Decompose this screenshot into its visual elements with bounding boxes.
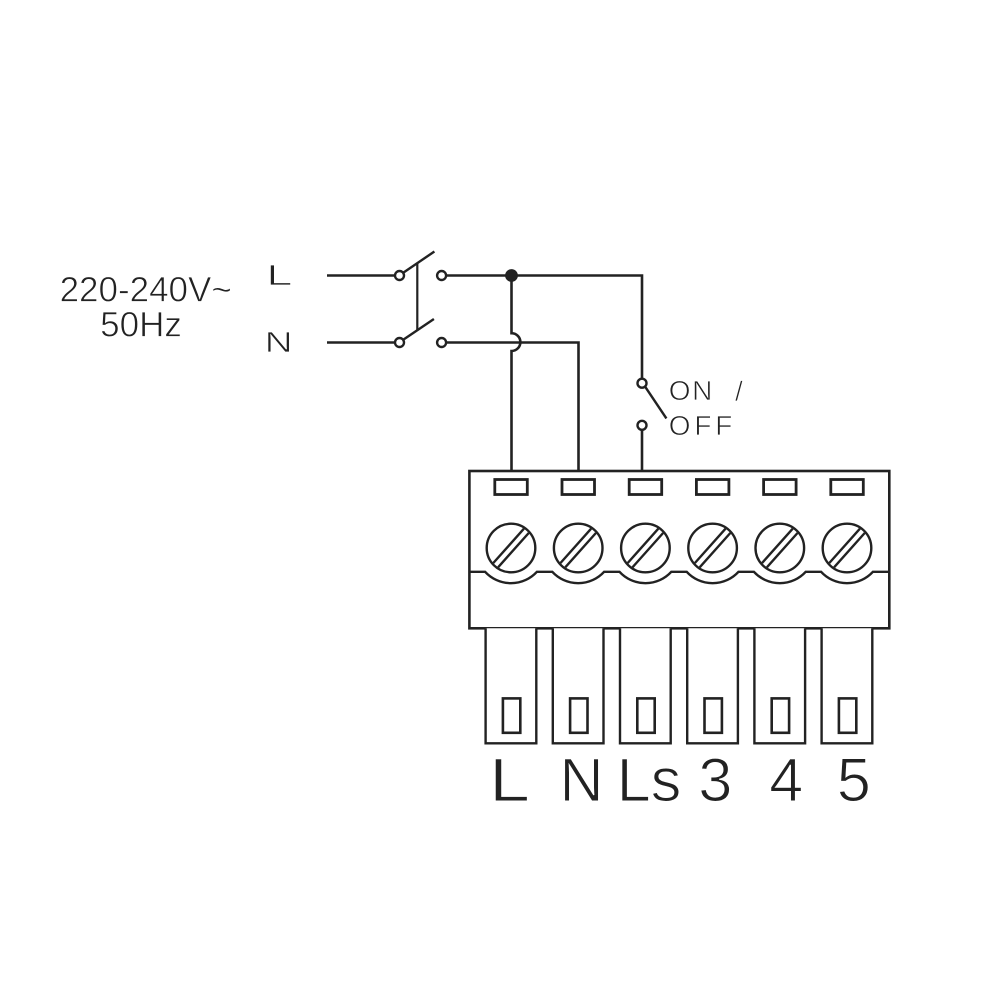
screw terminal 2 <box>554 524 603 573</box>
svg-text:ON: ON <box>669 375 714 406</box>
wire ON/OFF to terminal Ls <box>641 430 644 471</box>
wire L: switch to junction to ON/OFF drop <box>446 276 642 379</box>
screw terminal 1 <box>487 524 536 573</box>
svg-text:3: 3 <box>698 746 732 814</box>
svg-text:/: / <box>735 376 743 407</box>
connector tab 5 (4) <box>754 628 805 743</box>
screw terminal 5 <box>756 524 805 573</box>
terminal slot 5 <box>764 480 797 495</box>
label ON / OFF <box>669 375 743 441</box>
svg-text:Ls: Ls <box>617 746 681 814</box>
terminal slot 3 <box>629 480 662 495</box>
connector tab 1 (L) <box>486 628 537 743</box>
connector tab 3 (Ls) <box>620 628 671 743</box>
svg-text:L: L <box>266 260 292 292</box>
connector tab 2 (N) <box>553 628 604 743</box>
switch S1 pole a (L) <box>395 252 446 281</box>
connector tab 6 (5) <box>822 628 873 743</box>
value label 220-240V~ 50Hz <box>60 271 232 345</box>
switch S2 ON/OFF <box>638 379 667 430</box>
terminal block body <box>469 471 889 628</box>
screw terminal 6 <box>823 524 872 573</box>
wire N input <box>327 341 395 344</box>
svg-text:N: N <box>559 746 603 814</box>
svg-text:220-240V~: 220-240V~ <box>60 271 232 310</box>
scalloped clamp edge <box>469 572 889 583</box>
terminal slot 2 <box>562 480 595 495</box>
terminal slot 6 <box>831 480 864 495</box>
svg-text:L: L <box>489 746 530 814</box>
svg-text:50Hz: 50Hz <box>100 306 182 345</box>
wire L input <box>327 274 395 277</box>
junction dot <box>505 269 518 282</box>
screw terminal 4 <box>688 524 737 573</box>
screw terminal 3 <box>621 524 670 573</box>
terminal slot 4 <box>696 480 729 495</box>
svg-text:4: 4 <box>769 746 803 814</box>
terminal slot 1 <box>495 480 528 495</box>
svg-text:5: 5 <box>837 746 871 814</box>
svg-text:OFF: OFF <box>669 410 736 441</box>
switch S1 pole b (N) <box>395 319 446 347</box>
wire N: switch to terminal N <box>446 343 578 472</box>
connector tab 4 (3) <box>687 628 738 743</box>
svg-text:N: N <box>265 327 293 359</box>
switch S1 mechanical link <box>416 263 418 331</box>
wire junction to terminal L (hop over N wire) <box>512 276 521 472</box>
